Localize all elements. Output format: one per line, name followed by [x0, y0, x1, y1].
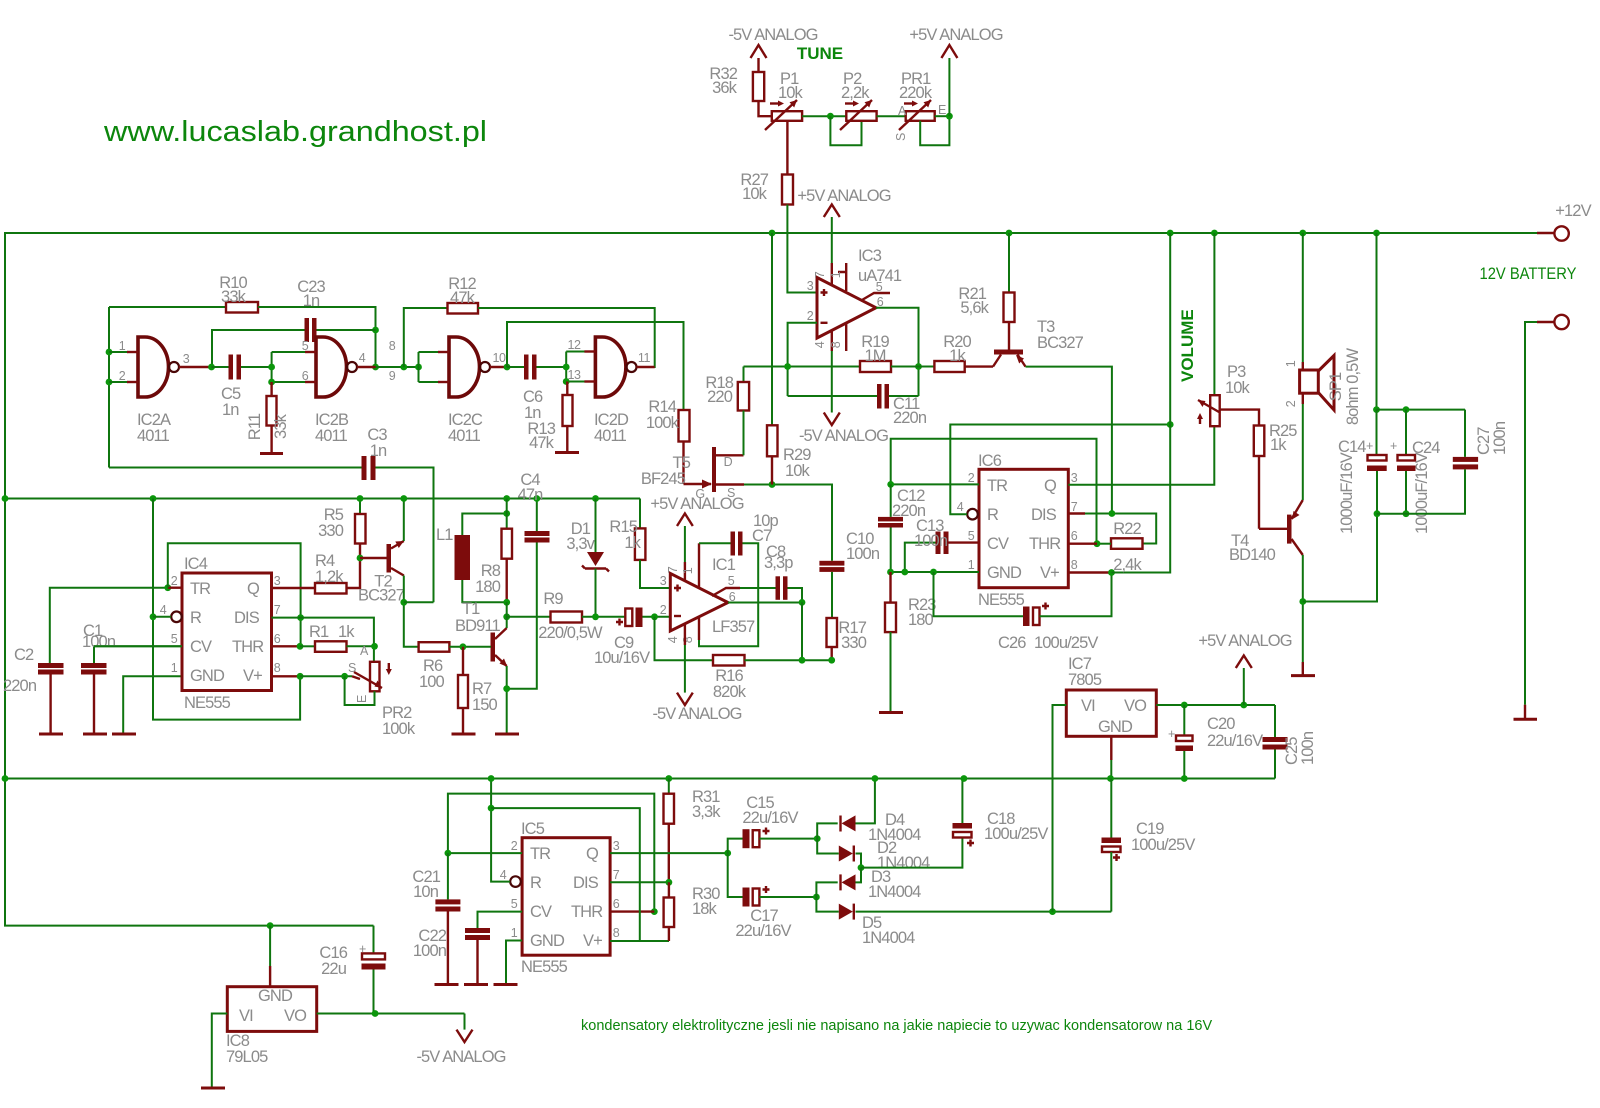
wire T2 emitter to bus: [403, 499, 405, 542]
wire P1 to P2: [802, 115, 846, 117]
svg-text:D: D: [724, 455, 733, 469]
svg-text:DIS: DIS: [234, 609, 260, 627]
wire R27 to IC3 pin3: [787, 205, 817, 293]
svg-text:V+: V+: [583, 932, 602, 950]
svg-text:+5V ANALOG: +5V ANALOG: [650, 495, 743, 513]
svg-text:4011: 4011: [448, 427, 481, 445]
svg-text:3,3k: 3,3k: [692, 803, 721, 821]
svg-text:5: 5: [511, 897, 518, 911]
svg-text:IC1: IC1: [712, 556, 736, 574]
svg-text:10u/16V: 10u/16V: [594, 649, 650, 667]
svg-text:100n: 100n: [1491, 421, 1509, 455]
svg-text:4: 4: [957, 500, 964, 514]
svg-text:10n: 10n: [413, 883, 439, 901]
resistor R4 1,2k: [315, 583, 347, 594]
capacitor C19 100u/25V: [1110, 779, 1112, 838]
wire R5/R4 to T2 base: [360, 557, 388, 559]
svg-text:1k: 1k: [624, 534, 641, 552]
pin 5 stub with C8: [712, 588, 740, 596]
svg-text:T1: T1: [462, 600, 480, 618]
resistor R15 1k: [639, 499, 641, 529]
svg-text:4: 4: [813, 341, 827, 348]
wire +12V rail: [5, 233, 1537, 926]
resistor R1 1k: [315, 641, 347, 652]
svg-text:VO: VO: [1124, 697, 1147, 715]
svg-text:10k: 10k: [742, 185, 768, 203]
wire IC4 TR-DIS loop: [168, 543, 301, 646]
svg-text:5: 5: [728, 574, 735, 588]
svg-text:1: 1: [171, 661, 178, 675]
svg-text:GND: GND: [530, 932, 565, 950]
resistor R6 100: [419, 642, 450, 652]
svg-text:5,6k: 5,6k: [960, 299, 989, 317]
op-amp IC1 LF357: [670, 573, 728, 631]
capacitor C22 100n: [478, 912, 523, 928]
wire P1 wiper to R27: [786, 121, 788, 175]
svg-text:10k: 10k: [785, 462, 811, 480]
svg-text:CV: CV: [190, 638, 212, 656]
wire pin6 output: [728, 602, 802, 604]
svg-text:8: 8: [681, 636, 695, 643]
svg-text:BC327: BC327: [358, 587, 405, 605]
svg-text:22u/16V: 22u/16V: [735, 922, 791, 940]
svg-text:2: 2: [119, 369, 126, 383]
svg-text:7: 7: [613, 868, 620, 882]
wire C4 bus y=498.5: [5, 498, 640, 500]
resistor R13 47k: [566, 382, 568, 396]
ground R13: [555, 451, 579, 454]
svg-text:100u/25V: 100u/25V: [1034, 634, 1098, 652]
wire R9 line: [507, 616, 551, 618]
svg-text:47n: 47n: [518, 486, 544, 504]
svg-text:8: 8: [274, 661, 281, 675]
svg-text:NE555: NE555: [184, 694, 231, 712]
svg-text:1: 1: [119, 339, 126, 353]
svg-text:VI: VI: [1081, 697, 1095, 715]
transistor T4 BD140: [1259, 528, 1287, 530]
svg-text:www.lucaslab.grandhost.pl: www.lucaslab.grandhost.pl: [103, 116, 487, 148]
svg-text:R22: R22: [1113, 520, 1141, 538]
net +5V ANALOG at IC7: [1243, 668, 1245, 705]
capacitor C1 100n: [94, 646, 182, 663]
svg-text:100k: 100k: [646, 414, 680, 432]
svg-text:330: 330: [841, 634, 867, 652]
svg-text:BD140: BD140: [1229, 546, 1276, 564]
capacitor C2 220n: [38, 663, 64, 668]
pin 4 stub to -5V: [684, 624, 686, 645]
wire T4 collector to C14 bottom: [1303, 514, 1377, 602]
svg-text:GND: GND: [987, 564, 1022, 582]
wire V+ line with R30 bottom: [640, 940, 669, 942]
svg-text:SP1: SP1: [1327, 372, 1345, 401]
wire R12 to pin11: [478, 308, 655, 367]
IC IC4 NE555: [182, 573, 272, 691]
svg-text:C2: C2: [14, 646, 34, 664]
svg-text:BC327: BC327: [1037, 334, 1084, 352]
svg-text:R11: R11: [246, 413, 264, 440]
svg-text:8: 8: [613, 926, 620, 940]
svg-text:3,3v: 3,3v: [566, 535, 595, 553]
svg-text:820k: 820k: [713, 683, 747, 701]
svg-text:100n: 100n: [1299, 731, 1317, 765]
svg-text:220n: 220n: [893, 409, 927, 427]
svg-text:THR: THR: [232, 638, 264, 656]
svg-text:A: A: [360, 644, 369, 658]
pin R bubble wire: [510, 876, 521, 887]
wire PR1 wiper loop: [920, 116, 949, 145]
svg-text:22u/16V: 22u/16V: [742, 809, 798, 827]
svg-text:IC4: IC4: [184, 555, 208, 573]
wire TR loop to THR: [448, 794, 654, 912]
svg-text:DIS: DIS: [1031, 506, 1057, 524]
svg-text:8ohm 0,5W: 8ohm 0,5W: [1344, 348, 1362, 426]
svg-text:100: 100: [419, 673, 445, 691]
svg-text:3,3p: 3,3p: [764, 554, 793, 572]
wire VI to ground: [212, 1014, 228, 1088]
wire C23 left: [212, 330, 305, 367]
svg-text:6: 6: [1071, 529, 1078, 543]
svg-text:79L05: 79L05: [226, 1048, 268, 1066]
potentiometer P2 2,2k: [846, 111, 876, 121]
svg-text:S: S: [894, 133, 908, 141]
pin 5 stub: [862, 293, 890, 300]
capacitor C6 1n: [507, 366, 524, 368]
svg-text:4: 4: [160, 603, 167, 617]
svg-text:5: 5: [968, 529, 975, 543]
svg-text:TR: TR: [987, 477, 1008, 495]
svg-text:1n: 1n: [222, 401, 239, 419]
svg-text:+5V ANALOG: +5V ANALOG: [1198, 632, 1291, 650]
gate IC2B 4011: [316, 337, 347, 397]
gate IC2A 4011: [138, 337, 169, 397]
wire ground bus y=778.5: [5, 778, 1275, 780]
svg-text:-5V ANALOG: -5V ANALOG: [416, 1048, 505, 1066]
wire pin10 loop to R14: [507, 322, 684, 410]
svg-text:1000uF/16V: 1000uF/16V: [1413, 452, 1431, 534]
svg-text:2,2k: 2,2k: [841, 84, 870, 102]
svg-text:-5V ANALOG: -5V ANALOG: [728, 26, 817, 44]
svg-text:+5V ANALOG: +5V ANALOG: [797, 187, 890, 205]
resistor R8 180: [503, 495, 510, 502]
capacitor C9 10u/16V: [625, 609, 632, 627]
svg-text:IC5: IC5: [521, 820, 545, 838]
pin DIS wire: [610, 881, 669, 883]
resistor R18 220: [743, 367, 745, 383]
wire T5 source line: [744, 485, 832, 561]
svg-text:3: 3: [1071, 471, 1078, 485]
gate IC2C 4011: [449, 337, 480, 397]
svg-text:VO: VO: [284, 1007, 307, 1025]
wire pin6 output: [876, 308, 919, 396]
wire VO line: [317, 1013, 465, 1015]
potentiometer PR1 220k: [906, 111, 935, 121]
wire R27 from P1: [782, 175, 793, 205]
svg-text:IC6: IC6: [978, 452, 1002, 470]
svg-text:+5V ANALOG: +5V ANALOG: [909, 26, 1002, 44]
svg-text:1k: 1k: [949, 347, 966, 365]
capacitor C14 1000uF/16V: [1376, 233, 1378, 410]
resistor R16 820k: [713, 655, 745, 666]
svg-text:2,4k: 2,4k: [1113, 556, 1142, 574]
terminal +12V: [1537, 232, 1554, 234]
gate IC2D 4011: [595, 337, 626, 397]
ground T4: [1302, 662, 1304, 675]
svg-text:100u/25V: 100u/25V: [984, 825, 1048, 843]
wire PR1 to +5V: [935, 115, 950, 117]
svg-text:CV: CV: [530, 903, 552, 921]
node pin3: [208, 364, 215, 371]
wire T2 collector node: [404, 576, 419, 647]
transistor T2 BC327: [387, 544, 392, 573]
transistor T5 BF245: [712, 447, 716, 492]
pin R bubble: [171, 612, 182, 623]
pin DIS wire: [272, 618, 374, 662]
resistor R17 330: [827, 618, 838, 647]
wire R12 feedback: [404, 308, 448, 367]
svg-text:1: 1: [1284, 360, 1298, 367]
svg-text:C20: C20: [1207, 715, 1235, 733]
IC IC8 79L05: [227, 987, 316, 1032]
wire GND to ground: [506, 941, 522, 985]
svg-text:VOLUME: VOLUME: [1178, 309, 1197, 382]
svg-text:R: R: [190, 609, 202, 627]
svg-text:GND: GND: [190, 667, 225, 685]
capacitor C16 22u: [373, 926, 375, 954]
svg-text:10k: 10k: [1225, 379, 1251, 397]
pin Q wire to R4: [272, 587, 316, 589]
svg-text:180: 180: [908, 611, 934, 629]
resistor R20 1k: [934, 361, 964, 372]
wire R16 feedback line: [655, 617, 714, 660]
capacitor C21 10n: [447, 853, 449, 899]
svg-text:5: 5: [876, 280, 883, 294]
svg-text:33k: 33k: [272, 413, 290, 439]
svg-text:4011: 4011: [594, 427, 627, 445]
svg-text:NE555: NE555: [978, 591, 1025, 609]
svg-text:4011: 4011: [315, 427, 348, 445]
svg-text:A: A: [898, 104, 907, 118]
svg-text:150: 150: [472, 696, 498, 714]
node P1/P2 junction: [827, 113, 834, 120]
svg-text:180: 180: [475, 578, 501, 596]
svg-text:1: 1: [829, 271, 843, 278]
resistor R31 3,3k: [665, 775, 672, 782]
svg-text:22u/16V: 22u/16V: [1207, 732, 1263, 750]
svg-text:IC3: IC3: [858, 247, 882, 265]
ground R11: [260, 452, 283, 455]
capacitor C5 1n: [212, 366, 229, 368]
resistor R19 1M: [860, 361, 891, 372]
wire T4 collector down: [1302, 555, 1304, 662]
svg-text:1000uF/16V: 1000uF/16V: [1338, 452, 1356, 534]
node pin10: [504, 364, 511, 371]
wire bus to IC4 vertical: [150, 495, 157, 502]
svg-text:1: 1: [681, 567, 695, 574]
svg-text:220: 220: [707, 388, 733, 406]
svg-text:BD911: BD911: [455, 617, 500, 635]
svg-text:7: 7: [813, 271, 827, 278]
svg-text:R: R: [530, 874, 542, 892]
transistor T3 BC327: [994, 350, 1023, 355]
svg-text:100k: 100k: [382, 720, 416, 738]
svg-text:Q: Q: [1044, 477, 1057, 495]
svg-text:+: +: [1366, 439, 1373, 453]
wire R32 top lead: [757, 58, 759, 72]
svg-text:-5V ANALOG: -5V ANALOG: [799, 427, 888, 445]
resistor R21 5,6k: [1008, 233, 1010, 293]
svg-text:CV: CV: [987, 535, 1009, 553]
pin 7 stub: [684, 562, 686, 581]
svg-text:3: 3: [613, 839, 620, 853]
svg-text:22u: 22u: [321, 960, 347, 978]
svg-text:+12V: +12V: [1555, 202, 1591, 220]
transistor T1 BD911: [491, 633, 496, 662]
svg-text:1N4004: 1N4004: [868, 883, 921, 901]
capacitor C23 1n: [305, 318, 310, 342]
capacitor C12 220n: [890, 484, 892, 517]
svg-text:2: 2: [171, 574, 178, 588]
terminal battery minus: [1554, 315, 1568, 329]
svg-text:kondensatory elektrolityczne j: kondensatory elektrolityczne jesli nie n…: [581, 1018, 1212, 1034]
wire inverting node line: [744, 366, 861, 368]
svg-text:C26: C26: [998, 634, 1026, 652]
capacitor C24 1000uF/16V: [1405, 410, 1407, 455]
wire P3 wiper to R25: [1220, 410, 1259, 426]
svg-text:1n: 1n: [370, 442, 387, 460]
svg-text:7: 7: [666, 566, 680, 573]
capacitor C13 100n: [949, 541, 980, 543]
wire VI to D5 line: [1053, 705, 1067, 912]
pin 7 stub: [831, 263, 833, 285]
wire TR line with C2: [50, 588, 168, 663]
zener D1 3,3v: [592, 495, 599, 502]
svg-text:TR: TR: [530, 845, 551, 863]
regulator IC7 7805: [1066, 690, 1156, 736]
wire SP1 pin1 to rail: [1302, 233, 1304, 362]
IC IC5 NE555: [522, 838, 610, 956]
svg-text:8: 8: [1071, 558, 1078, 572]
wire R10 line: [109, 306, 226, 308]
svg-text:2: 2: [660, 603, 667, 617]
capacitor C17 22u/16V: [728, 853, 743, 897]
svg-text:3: 3: [274, 574, 281, 588]
pin V+ wire: [1068, 571, 1111, 573]
resistor R29 10k: [771, 233, 773, 425]
svg-text:1n: 1n: [303, 292, 320, 310]
wire T1 emitter to ground: [506, 666, 508, 734]
pin 4 stub to -5V: [831, 331, 833, 351]
pin THR stub: [1068, 543, 1097, 545]
svg-text:TUNE: TUNE: [797, 44, 843, 63]
wire IC2A input feedback vertical: [108, 307, 110, 468]
capacitor C15 22u/16V: [728, 839, 743, 854]
IC IC6 NE555: [979, 469, 1068, 587]
resistor R12 47k: [448, 303, 479, 314]
potentiometer P3 10k: [1213, 233, 1215, 395]
svg-text:E: E: [938, 103, 946, 117]
svg-text:7: 7: [1071, 500, 1078, 514]
svg-text:33k: 33k: [221, 288, 247, 306]
svg-text:47k: 47k: [450, 289, 476, 307]
svg-text:220k: 220k: [899, 84, 933, 102]
wire R loop to V+: [491, 808, 640, 941]
svg-text:7: 7: [274, 603, 281, 617]
svg-text:R1: R1: [309, 623, 329, 641]
resistor R32: [753, 72, 764, 101]
svg-text:100n: 100n: [914, 532, 948, 550]
wire pin4 to IC2C inputs: [376, 366, 419, 368]
svg-text:Q: Q: [586, 845, 599, 863]
resistor R30 18k: [664, 898, 675, 928]
capacitor C4 47n: [536, 499, 538, 532]
svg-text:7805: 7805: [1068, 671, 1102, 689]
svg-text:100u/25V: 100u/25V: [1131, 836, 1195, 854]
svg-text:47k: 47k: [529, 434, 555, 452]
wire R32 bottom to P1: [759, 101, 772, 116]
pin 1 stub with C7 loop: [698, 543, 700, 588]
potentiometer P1 10k: [772, 111, 802, 121]
pin 8 stub: [845, 323, 847, 351]
svg-text:100n: 100n: [846, 545, 880, 563]
svg-text:3: 3: [183, 352, 190, 366]
svg-text:12: 12: [567, 338, 581, 352]
resistor R14 100k: [679, 410, 690, 442]
svg-text:100n: 100n: [82, 633, 116, 651]
pin 1 stub: [838, 263, 846, 291]
wire gate input stubs: [127, 351, 138, 353]
svg-text:THR: THR: [1029, 535, 1061, 553]
svg-text:11: 11: [638, 351, 651, 365]
capacitor C25 100n: [1274, 705, 1276, 737]
speaker SP1: [1300, 370, 1319, 393]
pin THR stub: [610, 910, 654, 912]
svg-text:2: 2: [968, 471, 975, 485]
resistor R5 330: [359, 499, 361, 515]
wire TR net with THR tie: [891, 439, 1097, 544]
svg-text:3: 3: [807, 279, 814, 293]
resistor R25 1k: [1254, 426, 1265, 457]
svg-text:8: 8: [389, 339, 396, 353]
svg-text:9: 9: [389, 369, 396, 383]
svg-text:220n: 220n: [3, 677, 37, 695]
wire SP1 pin2 to T4 emitter: [1302, 393, 1304, 404]
svg-text:220/0,5W: 220/0,5W: [538, 624, 603, 642]
wire IC2D input vertical: [565, 352, 567, 382]
capacitor C20 22u/16V: [1183, 705, 1185, 736]
svg-text:+: +: [359, 942, 366, 956]
svg-text:10: 10: [492, 351, 506, 365]
pin V+ wire: [272, 675, 301, 677]
wire IC2B input vertical: [271, 352, 273, 382]
svg-text:2: 2: [1284, 400, 1298, 407]
svg-text:1k: 1k: [338, 623, 355, 641]
svg-text:+: +: [1390, 439, 1397, 453]
svg-text:GND: GND: [258, 987, 293, 1005]
wire IC2C input vertical: [418, 352, 420, 382]
op-amp IC3: [817, 278, 876, 339]
svg-text:Q: Q: [247, 580, 260, 598]
diode D4 1N4004: [817, 823, 838, 838]
resistor R7 150: [462, 647, 464, 675]
svg-text:12V BATTERY: 12V BATTERY: [1480, 264, 1577, 283]
capacitor C8 3,3p: [740, 587, 776, 589]
svg-text:BF245: BF245: [641, 470, 686, 488]
wire P2 wiper loop: [830, 116, 861, 145]
wire PR2 S-E loop: [345, 676, 375, 705]
capacitor C26 100u/25V: [934, 572, 1024, 616]
svg-text:GND: GND: [1098, 718, 1133, 736]
svg-text:10k: 10k: [778, 84, 804, 102]
